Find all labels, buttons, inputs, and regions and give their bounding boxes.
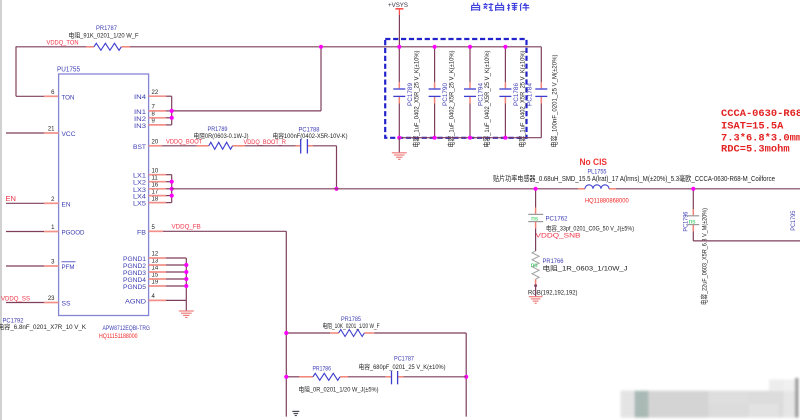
svg-text:ns: ns	[689, 219, 696, 226]
junction LX3	[170, 187, 174, 191]
svg-text:SS: SS	[62, 301, 71, 308]
wire PGND4 pin	[149, 278, 187, 280]
svg-text:FB: FB	[137, 229, 146, 236]
capacitor C PC1786	[499, 47, 526, 148]
junction LX-PC1796	[691, 187, 695, 191]
pin numbers right	[152, 90, 159, 300]
wire LX3 pin	[149, 188, 172, 190]
junction FB row2	[284, 375, 288, 379]
svg-text:APW8712EQBI-TRG: APW8712EQBI-TRG	[103, 325, 151, 332]
svg-text:电容_1uF_0402_X5R_25 V_K(±10%): 电容_1uF_0402_X5R_25 V_K(±10%)	[517, 51, 526, 148]
svg-text:PR1787: PR1787	[96, 25, 118, 32]
svg-text:电阻_0R_0201_1/20 W_J(±5%): 电阻_0R_0201_1/20 W_J(±5%)	[299, 385, 379, 394]
svg-text:5: 5	[152, 225, 156, 231]
junction PGND4	[184, 277, 188, 281]
blurred watermark block	[621, 378, 799, 418]
svg-text:21: 21	[48, 127, 55, 133]
wire VDDQ_TON vertical	[15, 46, 17, 96]
svg-text:6: 6	[51, 90, 55, 96]
svg-text:电阻_1R_0603_1/10W_J: 电阻_1R_0603_1/10W_J	[543, 263, 628, 272]
svg-text:EN: EN	[6, 194, 16, 203]
svg-text:PGOOD: PGOOD	[62, 230, 85, 237]
wire cap bottom rail	[399, 137, 541, 139]
wire LX4 pin	[149, 195, 172, 197]
ground SNB	[529, 286, 543, 304]
pin names left	[62, 94, 85, 307]
wire row1 right	[374, 332, 466, 334]
svg-text:PC1762: PC1762	[546, 216, 569, 223]
title 背对背摆件 (stroke-drawn CJK)	[472, 3, 530, 11]
capacitor C PC1788	[273, 127, 348, 154]
pin numbers left	[48, 90, 55, 302]
svg-text:ISAT=15.5A: ISAT=15.5A	[721, 121, 784, 133]
svg-text:电容_22uF_0603_X5R_6.3 V_M(±20%): 电容_22uF_0603_X5R_6.3 V_M(±20%)	[699, 208, 708, 305]
resistor R PR1785	[323, 316, 380, 337]
page edge	[0, 0, 2, 420]
svg-text:VDDQ_SNB: VDDQ_SNB	[536, 233, 582, 240]
capacitor C PC1790	[429, 47, 456, 148]
svg-text:PC1795: PC1795	[790, 210, 797, 230]
wire TON pin	[16, 95, 44, 97]
svg-text:LX5: LX5	[133, 201, 147, 208]
svg-text:8: 8	[152, 112, 156, 118]
svg-text:10: 10	[152, 168, 159, 174]
wire right vertical	[465, 333, 467, 417]
wire PGOOD pin	[6, 231, 59, 233]
svg-text:PR1766: PR1766	[543, 258, 565, 265]
svg-text:电容_6.8nF_0201_X7R_10 V_K: 电容_6.8nF_0201_X7R_10 V_K	[0, 322, 87, 331]
capacitor C PC1789	[393, 47, 420, 148]
ground AGND	[179, 300, 194, 317]
wire BST to LX rail	[313, 146, 337, 189]
svg-text:EN: EN	[62, 201, 71, 208]
wire VDDQ_TON top rail	[16, 46, 541, 48]
junction LX2	[170, 180, 174, 184]
junction top rail PC1790	[433, 45, 437, 49]
junction LX4	[170, 194, 174, 198]
junction LX-SNB	[534, 187, 538, 191]
svg-text:电阻_10K_0201_1/20 W_F: 电阻_10K_0201_1/20 W_F	[323, 321, 380, 330]
junction top rail PC1794	[468, 45, 472, 49]
resistor R PR1789	[194, 126, 249, 149]
junction BST-LX	[334, 187, 338, 191]
op-amp U PU1755 IC body	[57, 66, 149, 315]
svg-text:PC1796: PC1796	[683, 211, 690, 231]
junction bottom rail PC1786	[503, 136, 507, 140]
svg-text:+VSYS: +VSYS	[388, 2, 408, 9]
svg-text:3: 3	[51, 260, 55, 266]
svg-text:PU1755: PU1755	[57, 66, 80, 73]
svg-text:电容_1uF_0402_X5R_25 V_K(±10%): 电容_1uF_0402_X5R_25 V_K(±10%)	[447, 51, 456, 148]
svg-text:LX4: LX4	[133, 194, 147, 201]
wire BST pin	[149, 145, 197, 147]
text inductor spec block	[721, 108, 800, 156]
IC value labels	[99, 325, 150, 340]
svg-text:贴片功率电感器_0.68uH_SMD_15.5 A(lrat: 贴片功率电感器_0.68uH_SMD_15.5 A(lrat)_17 A(lrm…	[493, 174, 775, 183]
junction VSYS drop	[319, 45, 323, 49]
wire SS pin	[6, 302, 59, 304]
PFM overline	[62, 261, 76, 263]
svg-text:11: 11	[152, 175, 159, 181]
wire FB row1	[286, 332, 330, 334]
power +VSYS	[388, 2, 408, 47]
capacitor C PC1762 (ns)	[528, 189, 634, 233]
svg-text:LX1: LX1	[133, 173, 147, 180]
pin names right	[123, 94, 147, 305]
svg-text:VCC: VCC	[62, 131, 76, 138]
junction IN1	[170, 109, 174, 113]
junction PGND5	[184, 284, 188, 288]
wire LX2 pin	[149, 181, 172, 183]
junction FB row1	[284, 331, 288, 335]
svg-text:电容100nF(0402-X5R-10V-K): 电容100nF(0402-X5R-10V-K)	[273, 131, 348, 140]
svg-text:电容_100nF_0201_25 V_M(±20%): 电容_100nF_0201_25 V_M(±20%)	[550, 55, 559, 148]
svg-text:TON: TON	[62, 94, 75, 101]
wire IN1 pin	[149, 110, 172, 112]
svg-text:18: 18	[152, 196, 159, 202]
wire FB vertical	[285, 231, 287, 416]
svg-text:ns: ns	[531, 216, 538, 223]
wire PGND3 pin	[149, 271, 187, 273]
svg-text:电阻0R(0603-0.1W-J): 电阻0R(0603-0.1W-J)	[194, 131, 249, 140]
dashed selection box	[385, 39, 526, 138]
svg-text:IN4: IN4	[134, 94, 147, 101]
svg-text:2: 2	[51, 197, 55, 203]
svg-text:BST: BST	[133, 144, 146, 151]
svg-text:14: 14	[152, 266, 159, 272]
svg-text:1: 1	[51, 225, 55, 231]
wire PGND2 pin	[149, 264, 187, 266]
capacitor C PC1787	[359, 355, 446, 384]
junction PGND2	[184, 263, 188, 267]
svg-text:16: 16	[152, 183, 159, 189]
svg-text:IN2: IN2	[134, 116, 147, 123]
node SNB bottom	[534, 284, 537, 287]
svg-text:13: 13	[152, 259, 159, 265]
wire PGND1 pin	[149, 257, 187, 259]
svg-text:CCCA-0630-R68: CCCA-0630-R68	[721, 108, 800, 120]
capacitor C PC1784	[527, 47, 559, 148]
wire LX5 pin	[149, 202, 172, 204]
wire row2 mid	[348, 376, 386, 378]
wire PGND bracket	[185, 258, 187, 300]
ground VSYS caps	[392, 138, 407, 160]
svg-text:19: 19	[152, 280, 159, 286]
capacitor C PC1796 (ns)	[683, 189, 709, 305]
resistor R PR1766 (ns)	[531, 251, 628, 286]
wire EN pin	[6, 202, 59, 204]
wire BST mid	[245, 145, 296, 147]
wire VCC pin	[6, 132, 59, 134]
svg-text:15: 15	[152, 273, 159, 279]
svg-text:AGND: AGND	[125, 298, 146, 305]
svg-text:PR1785: PR1785	[341, 316, 361, 323]
wire SNB mid	[535, 229, 537, 252]
wire LX1 pin	[149, 174, 172, 176]
svg-text:VDDQ_TON: VDDQ_TON	[47, 40, 79, 47]
svg-text:9: 9	[152, 119, 156, 125]
svg-text:4: 4	[152, 294, 156, 300]
wire PC1796 out	[693, 240, 800, 242]
junction bottom rail PC1789	[397, 136, 401, 140]
svg-text:PC1787: PC1787	[394, 355, 414, 362]
svg-text:PGND2: PGND2	[123, 263, 146, 270]
svg-text:ns: ns	[531, 262, 538, 269]
svg-text:HQ11151188000: HQ11151188000	[99, 333, 138, 340]
svg-text:VDDQ_FB: VDDQ_FB	[172, 224, 202, 231]
wire LX bracket	[171, 175, 173, 203]
svg-text:PGND4: PGND4	[123, 277, 146, 284]
svg-text:电容_680pF_0201_25 V_K(±10%): 电容_680pF_0201_25 V_K(±10%)	[359, 362, 446, 371]
junction IN2	[170, 116, 174, 120]
junction top rail PC1789	[397, 45, 401, 49]
resistor R PR1786	[299, 365, 379, 393]
wire IN4 pin	[149, 95, 172, 97]
svg-text:电容_1uF_0402_X5R_25 V_K(±10%): 电容_1uF_0402_X5R_25 V_K(±10%)	[411, 51, 420, 148]
wire FB pin	[149, 230, 287, 232]
svg-text:20: 20	[152, 140, 159, 146]
wire IN3 pin	[149, 124, 172, 126]
svg-text:PGND1: PGND1	[123, 256, 146, 263]
wire AGND pin	[149, 299, 187, 301]
svg-text:23: 23	[48, 296, 55, 302]
wire row2 right	[404, 376, 467, 378]
wire VSYS drop	[320, 47, 322, 111]
wire PFM pin	[6, 265, 59, 267]
svg-text:22: 22	[152, 90, 159, 96]
wire FB row2 left	[286, 376, 299, 378]
svg-text:电容_1uF_0402_X5R_25 V_K(±10%): 电容_1uF_0402_X5R_25 V_K(±10%)	[482, 51, 491, 148]
junction row2 right	[464, 375, 468, 379]
svg-text:VDDQ_SS: VDDQ_SS	[1, 295, 31, 302]
junction bottom rail PC1794	[468, 136, 472, 140]
svg-text:PR1789: PR1789	[208, 126, 228, 133]
svg-text:PR1786: PR1786	[313, 365, 332, 372]
svg-text:17: 17	[152, 189, 159, 195]
wire IN bracket	[171, 96, 173, 125]
svg-text:LX2: LX2	[133, 180, 147, 187]
inductor L PL1755	[493, 168, 775, 204]
wire IN2 pin	[149, 117, 172, 119]
wire PGND5 pin	[149, 285, 187, 287]
svg-text:PC1784: PC1784	[527, 82, 534, 106]
wire LX main rail	[172, 188, 800, 190]
svg-text:PGND5: PGND5	[123, 284, 146, 291]
wire IN rail to VSYS	[172, 110, 321, 112]
capacitor C PC1792 label	[0, 317, 87, 331]
svg-text:No CIS: No CIS	[580, 157, 608, 168]
svg-text:RDC=5.3mohm: RDC=5.3mohm	[721, 144, 790, 156]
svg-text:PGND3: PGND3	[123, 270, 146, 277]
svg-text:电容_33pf_0201_C0G_50 V_J(±5%): 电容_33pf_0201_C0G_50 V_J(±5%)	[546, 224, 634, 233]
junction PGND3	[184, 270, 188, 274]
svg-text:PFM: PFM	[62, 264, 75, 271]
svg-text:12: 12	[152, 252, 159, 258]
capacitor C PC1794	[464, 47, 491, 148]
junction top rail PC1786	[503, 45, 507, 49]
svg-text:7: 7	[152, 105, 156, 111]
resistor R PR1787	[69, 25, 139, 50]
svg-text:HQ11880868000: HQ11880868000	[585, 197, 629, 204]
svg-text:IN3: IN3	[134, 123, 147, 130]
ground small bottom	[292, 411, 299, 415]
junction bottom rail PC1790	[433, 136, 437, 140]
svg-text:电阻_91K_0201_1/20 W_F: 电阻_91K_0201_1/20 W_F	[69, 30, 139, 39]
